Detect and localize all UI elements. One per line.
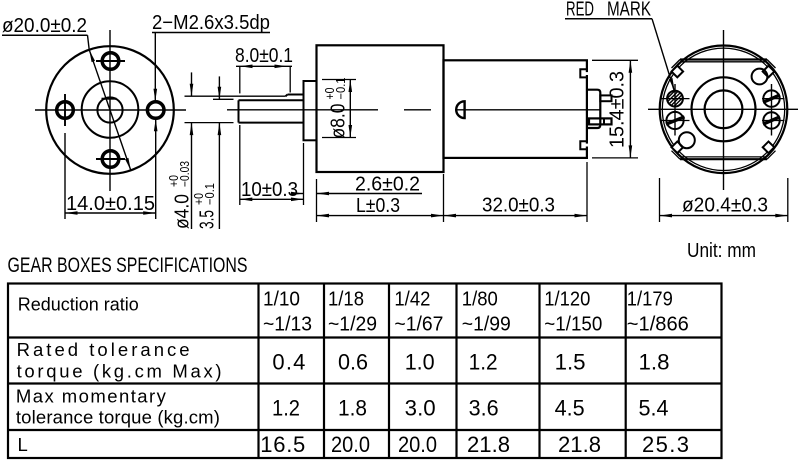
dimension ø8.0 +0 -0.1 inside gearbox (322, 77, 356, 138)
mount hole left (57, 94, 74, 126)
label RED MARK with leader (565, 0, 675, 91)
dimension 14.0±0.15 (65, 193, 156, 215)
shaft bottom extension tick (185, 122, 234, 124)
motor body (444, 60, 587, 158)
screw hole top (96, 53, 125, 70)
table L values (260, 432, 689, 457)
gearbox body (317, 45, 444, 172)
dimension ø20.4±0.3 (660, 178, 788, 222)
dimension 15.4±0.3 vertical (592, 60, 638, 158)
svg-text:1/179: 1/179 (627, 289, 673, 311)
svg-text:~1/99: ~1/99 (462, 314, 511, 336)
svg-text:5.4: 5.4 (639, 396, 669, 421)
table row labels (16, 294, 222, 456)
svg-text:~1/29: ~1/29 (328, 314, 377, 336)
rear view inner rim circle (662, 48, 784, 170)
svg-text:2.6±0.2: 2.6±0.2 (355, 174, 420, 196)
rear tab top-right (763, 66, 775, 78)
dimension ø4.0 +0 -0.03 vertical (167, 72, 193, 229)
side view shaft (239, 95, 304, 123)
svg-text:21.8: 21.8 (558, 432, 601, 457)
svg-text:RED: RED (566, 0, 594, 21)
svg-text:3.6: 3.6 (469, 396, 499, 421)
svg-text:0.6: 0.6 (338, 350, 368, 375)
svg-text:1.2: 1.2 (469, 350, 498, 375)
svg-text:8.0±0.1: 8.0±0.1 (235, 45, 293, 67)
front view horizontal centerline (35, 109, 186, 111)
label ø20.0±0.2 with leader (2, 15, 88, 37)
main axis centerline (227, 109, 600, 111)
plain hole top-right (752, 69, 768, 85)
rear view outer circle (660, 46, 788, 174)
dimension L±0.3 (317, 174, 444, 222)
svg-text:−0.1: −0.1 (203, 183, 217, 205)
svg-text:ø20.0±0.2: ø20.0±0.2 (2, 15, 87, 37)
svg-text:MARK: MARK (607, 0, 651, 21)
svg-text:~1/150: ~1/150 (544, 314, 602, 336)
svg-text:~1/866: ~1/866 (627, 314, 689, 336)
terminal pin lower (589, 118, 612, 124)
svg-text:4.5: 4.5 (555, 396, 585, 421)
screw hole bottom (96, 151, 125, 168)
svg-text:1.5: 1.5 (555, 350, 586, 375)
svg-text:Rated tolerance: Rated tolerance (17, 339, 190, 360)
svg-text:1.8: 1.8 (639, 350, 670, 375)
svg-text:Reduction ratio: Reduction ratio (18, 294, 139, 315)
rear tab bottom-left (672, 142, 684, 154)
shaft flat extension tick (213, 98, 234, 100)
svg-text:20.0: 20.0 (398, 432, 437, 457)
rear view bottom chord lines (672, 151, 776, 160)
dimension 8.0±0.1 (235, 45, 293, 93)
red mark hole hatched (658, 90, 709, 108)
leader line to mount hole right (154, 33, 158, 102)
svg-text:~1/67: ~1/67 (394, 314, 443, 336)
rear center bore circle (705, 90, 743, 128)
svg-text:1/10: 1/10 (263, 289, 300, 311)
svg-text:25.3: 25.3 (642, 432, 689, 457)
svg-text:10±0.3: 10±0.3 (241, 179, 298, 201)
rear horizontal centerline (648, 108, 798, 110)
svg-text:14.0±0.15: 14.0±0.15 (66, 193, 155, 215)
motor endcap tab top (580, 69, 589, 77)
diameter dimension line ø20 across circle (88, 35, 131, 170)
mount hole right (147, 102, 164, 119)
svg-text:16.5: 16.5 (260, 432, 305, 457)
svg-text:1/80: 1/80 (462, 289, 498, 311)
svg-text:21.8: 21.8 (467, 432, 510, 457)
rear tab bottom-right (763, 142, 775, 154)
dimension 3.5 +0 -0.1 vertical (192, 76, 221, 229)
dimension 10±0.3 (240, 125, 304, 205)
rear center boss circle (692, 77, 756, 141)
vertical line through right holes (771, 84, 773, 136)
rear tab top-left (672, 66, 684, 78)
svg-text:−0.1: −0.1 (334, 77, 348, 99)
table header ratios (263, 289, 689, 336)
extension line from left hole (64, 133, 66, 219)
front view vertical centerline (109, 30, 111, 191)
svg-text:1/120: 1/120 (544, 289, 590, 311)
shaft end semicircle inside motor (456, 101, 464, 118)
shaft OD extension tick top (185, 95, 286, 97)
svg-text:tolerance torque (kg.cm): tolerance torque (kg.cm) (16, 407, 220, 428)
front view outer circle ø20.0 (46, 46, 174, 174)
svg-text:15.4±0.3: 15.4±0.3 (607, 71, 629, 148)
svg-text:Unit: mm: Unit: mm (687, 240, 756, 262)
mount hole right lower extension with arrow (154, 119, 158, 219)
svg-text:L±0.3: L±0.3 (356, 195, 400, 217)
svg-text:3.0: 3.0 (405, 396, 436, 421)
svg-text:ø4.0: ø4.0 (171, 194, 193, 229)
svg-text:L: L (18, 434, 28, 455)
svg-text:GEAR BOXES SPECIFICATIONS: GEAR BOXES SPECIFICATIONS (8, 254, 248, 277)
motor endcap tab bottom (580, 141, 589, 149)
svg-text:1/42: 1/42 (394, 289, 430, 311)
plain hole bottom-left (679, 132, 695, 148)
svg-text:ø20.4±0.3: ø20.4±0.3 (682, 195, 768, 217)
svg-text:torque (kg.cm Max): torque (kg.cm Max) (17, 361, 222, 382)
front view shaft circle with flat (97, 97, 122, 122)
rear vertical centerline (723, 30, 725, 190)
svg-text:ø8.0: ø8.0 (327, 104, 349, 139)
terminal housing (587, 90, 600, 128)
svg-text:2−M2.6x3.5dp: 2−M2.6x3.5dp (152, 12, 270, 34)
svg-text:20.0: 20.0 (331, 432, 370, 457)
terminal hole left-lower with slash (660, 112, 690, 129)
dimension 32.0±0.3 (444, 162, 588, 222)
front view gearbox boss circle (82, 81, 139, 138)
svg-text:Max momentary: Max momentary (16, 386, 167, 407)
svg-text:0.4: 0.4 (272, 350, 305, 375)
flange washer (304, 81, 317, 140)
terminal hole right-upper with slash (762, 90, 785, 106)
label 2-M2.6x3.5dp with leader (152, 12, 270, 34)
svg-text:1/18: 1/18 (328, 289, 364, 311)
terminal hole right-lower with slash (762, 112, 785, 128)
vertical line through left holes (674, 84, 676, 136)
svg-text:~1/13: ~1/13 (263, 314, 312, 336)
svg-text:−0.03: −0.03 (178, 161, 192, 187)
rear view top chord lines (672, 60, 776, 69)
table max momentary torque values (272, 396, 669, 421)
terminal pin upper (600, 95, 611, 101)
svg-text:1.2: 1.2 (272, 396, 300, 421)
svg-text:1.0: 1.0 (405, 350, 435, 375)
table grid (8, 284, 722, 459)
svg-text:32.0±0.3: 32.0±0.3 (482, 195, 555, 217)
dimension 2.6±0.2 (291, 174, 422, 196)
table rated torque values (272, 350, 669, 375)
svg-text:1.8: 1.8 (338, 396, 367, 421)
svg-text:3.5: 3.5 (196, 210, 218, 229)
